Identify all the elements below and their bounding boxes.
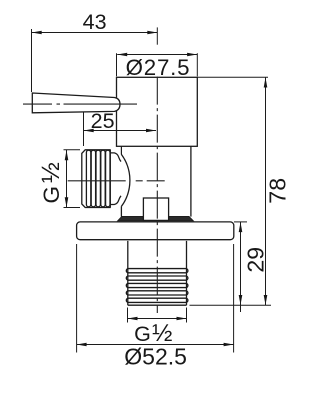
handle lever xyxy=(32,93,120,113)
dim 52.5 ext right xyxy=(233,244,235,353)
lower body tube left edge lower segment xyxy=(120,206,122,216)
dim 43 ext line left xyxy=(31,29,33,92)
dim G half bottom line xyxy=(128,318,187,320)
svg-text:43: 43 xyxy=(83,10,107,34)
inlet thread ridges xyxy=(86,150,110,207)
arrowhead G half bottom left xyxy=(128,317,138,321)
stem nut xyxy=(143,198,168,220)
svg-text:25: 25 xyxy=(91,109,115,133)
arrowhead G half left bottom xyxy=(65,197,69,207)
arrowhead 27.5 left xyxy=(117,53,127,57)
dim 52.5 line xyxy=(77,344,234,346)
inlet neck top outline xyxy=(110,153,121,162)
arrowhead G half left top xyxy=(65,150,69,160)
dim 29 line xyxy=(240,222,242,312)
outlet neck left wall xyxy=(127,241,129,305)
lower body tube right edge xyxy=(190,146,192,216)
dim 43 line xyxy=(32,32,157,34)
outlet thread ridges xyxy=(126,269,188,303)
dim 25 line xyxy=(84,130,157,132)
dim 43 ext line right xyxy=(156,27,158,44)
dim G half bottom ext left xyxy=(127,308,129,323)
dim 29 and 78 ext bottom (outlet bottom extended) xyxy=(190,304,272,306)
inlet hub ball arc xyxy=(121,154,130,206)
inlet thread end face xyxy=(109,150,111,208)
centerline vertical (valve axis) xyxy=(156,77,158,313)
dim G half left ext top xyxy=(64,149,81,151)
arrowhead 25 left xyxy=(84,129,94,133)
dim 27.5 line xyxy=(117,54,197,56)
inlet thread outline xyxy=(82,150,111,208)
centerline horizontal (handle axis) xyxy=(23,103,137,105)
dim G half left line xyxy=(66,150,68,208)
svg-text:78: 78 xyxy=(265,178,291,204)
arrowhead 43 left xyxy=(32,31,42,35)
centerline horizontal (inlet axis) xyxy=(68,180,165,182)
dim 78 line xyxy=(265,77,267,305)
dim 25 ext left xyxy=(83,113,85,147)
arrowhead G half bottom right xyxy=(177,317,187,321)
arrowhead 29 top xyxy=(239,222,243,232)
valve bonnet body rectangle xyxy=(117,77,198,146)
svg-text:Ø52.5: Ø52.5 xyxy=(124,343,187,369)
arrowhead 52.5 left xyxy=(77,343,87,347)
svg-text:29: 29 xyxy=(242,247,268,273)
dim 78 ext top (body top extended) xyxy=(197,76,268,78)
dim G half left ext bottom xyxy=(64,207,81,209)
gasket washer band xyxy=(118,216,194,221)
arrowhead 78 top xyxy=(264,78,268,88)
dim 27.5 ext left xyxy=(116,53,118,76)
outlet neck right wall xyxy=(186,241,188,305)
arrowhead 27.5 right xyxy=(187,53,197,57)
dim 27.5 ext right xyxy=(196,53,198,76)
arrowhead 78 bottom xyxy=(264,295,268,305)
lower body tube left edge upper segment xyxy=(120,146,122,154)
arrowhead 52.5 right xyxy=(224,343,234,347)
arrowhead 29 bottom xyxy=(239,295,243,305)
arrowhead 25 right xyxy=(146,129,156,133)
svg-text:Ø27.5: Ø27.5 xyxy=(126,55,191,80)
dim G half bottom ext right xyxy=(186,308,188,323)
dim 52.5 ext left xyxy=(76,244,78,353)
svg-text:G½: G½ xyxy=(37,159,65,203)
flange plate xyxy=(77,222,234,240)
inlet neck bottom outline xyxy=(110,196,121,205)
dim 29 ext top (flange top extended) xyxy=(234,221,247,223)
arrowhead 43 right xyxy=(147,31,157,35)
outlet bottom edge xyxy=(128,304,187,306)
